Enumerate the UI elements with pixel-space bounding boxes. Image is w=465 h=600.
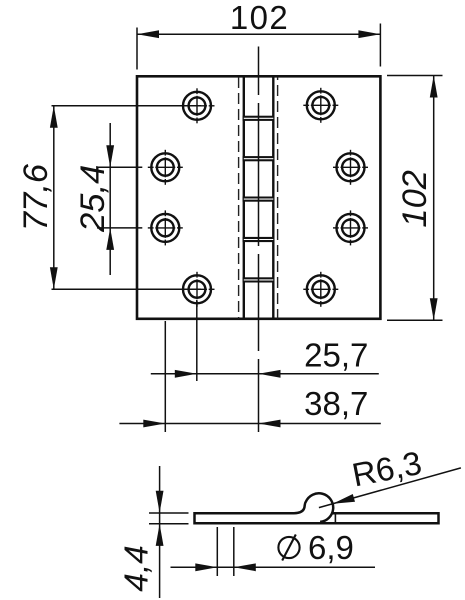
dimension 77,6: witness lines	[52, 106, 202, 289]
svg-text:25,7: 25,7	[304, 337, 368, 374]
side view knuckle curl	[294, 493, 333, 522]
dimension 25,7: witness line	[196, 300, 198, 381]
dimension 102 top: arrows	[137, 30, 380, 38]
svg-text:102: 102	[396, 170, 434, 228]
hinge leaf outline (front view)	[137, 76, 380, 318]
dimension diameter 6,9: arrows	[195, 563, 256, 571]
screw hole H3	[148, 150, 183, 185]
dimension diameter 6,9: witness lines	[217, 527, 234, 576]
radius R6,3 leader line	[319, 468, 461, 508]
svg-text:4,4: 4,4	[119, 545, 156, 592]
dimension 25,4: dimension line	[109, 123, 111, 275]
dimension 77,6: arrows	[50, 106, 58, 289]
dimension 102 top: dimension line	[137, 33, 380, 35]
curl tangent line left (hidden)	[238, 77, 240, 319]
dimension 25,4: arrows	[106, 145, 114, 250]
knuckle barrel right edge	[272, 76, 274, 318]
screw hole H4	[333, 150, 368, 185]
dimension diameter 6,9: diameter symbol	[278, 535, 299, 561]
curl tangent line right (hidden)	[277, 77, 279, 319]
dimension diameter 6,9: dimension line	[171, 566, 376, 568]
svg-text:25,4: 25,4	[74, 165, 112, 233]
knuckle divider band 4	[243, 237, 275, 242]
screw hole H2	[303, 88, 338, 123]
dimension 102 right: arrows	[430, 76, 438, 321]
dimension 25,4: witness lines	[97, 167, 142, 228]
knuckle barrel left edge	[243, 76, 245, 318]
dimension 38,7: dimension line	[119, 423, 380, 425]
knuckle divider band 5	[243, 277, 275, 282]
side view leaf edge tick	[334, 513, 336, 522]
svg-text:77,6: 77,6	[17, 163, 55, 231]
knuckle divider band 3	[243, 197, 275, 202]
svg-text:102: 102	[230, 0, 289, 36]
screw hole H5	[148, 210, 183, 245]
pin centerline	[258, 47, 260, 433]
dimension 25,7: arrows	[175, 370, 281, 378]
screw hole H6	[333, 210, 368, 245]
dimension 25,7: dimension line	[151, 373, 379, 375]
dimension 4,4: arrows	[156, 491, 164, 546]
knuckle divider band 2	[243, 156, 275, 161]
knuckle divider band 1	[243, 116, 275, 121]
dimension 102 right: dimension line	[433, 76, 435, 321]
dimension 102 right: witness lines	[387, 76, 443, 321]
screw hole H1	[180, 88, 215, 123]
dimension 4,4: dimension line	[159, 466, 161, 598]
side view plate	[195, 512, 439, 525]
dimension 38,7: witness line	[164, 321, 166, 432]
svg-text:38,7: 38,7	[304, 385, 368, 422]
dimension 102 top: witness lines	[137, 24, 380, 70]
dimension 77,6: dimension line	[53, 106, 55, 289]
dimension 38,7: arrows	[143, 420, 280, 428]
screw hole H8	[303, 272, 338, 307]
screw hole H7	[180, 272, 215, 307]
dimension 4,4: witness lines	[149, 513, 189, 524]
radius R6,3 arrow	[333, 494, 355, 504]
svg-text:6,9: 6,9	[308, 529, 354, 566]
